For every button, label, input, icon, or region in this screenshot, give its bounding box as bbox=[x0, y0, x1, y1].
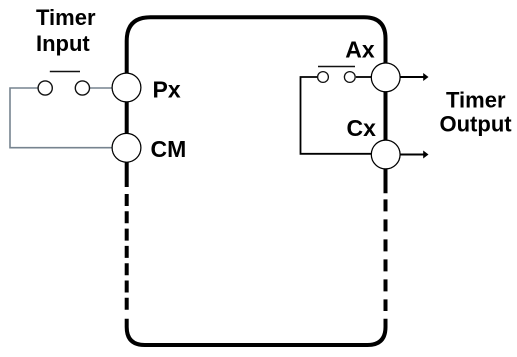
switch S1 blade bar bbox=[50, 71, 80, 73]
svg-text:Output: Output bbox=[440, 112, 513, 137]
timer unit bottom edge solid bbox=[127, 319, 386, 345]
wire: output switch to Ax bbox=[356, 76, 371, 78]
svg-text:CM: CM bbox=[151, 136, 187, 162]
terminal Cx bbox=[371, 140, 400, 169]
switch S2 contact circle right bbox=[344, 72, 355, 83]
switch S2 contact circle left bbox=[318, 72, 329, 83]
switch S1 contact circle left bbox=[38, 81, 52, 95]
timer unit right edge dashed bbox=[384, 199, 388, 311]
arrow: Cx output bbox=[401, 151, 429, 159]
timer unit outline (solid top and sides) bbox=[127, 17, 386, 193]
arrow: Ax output bbox=[401, 73, 429, 81]
svg-text:Ax: Ax bbox=[345, 37, 375, 63]
svg-text:Input: Input bbox=[36, 31, 90, 56]
svg-text:Timer: Timer bbox=[446, 87, 506, 112]
label Timer Output bbox=[440, 87, 513, 136]
terminal Px bbox=[112, 73, 141, 102]
switch S1 contact circle right bbox=[75, 81, 89, 95]
svg-text:Timer: Timer bbox=[36, 5, 96, 30]
wire: right loop from output switch to Cx bbox=[301, 77, 372, 154]
terminal CM bbox=[112, 133, 141, 162]
label Timer Input bbox=[36, 5, 96, 56]
svg-text:Cx: Cx bbox=[347, 115, 377, 141]
wire: left loop from input switch to CM bbox=[10, 88, 112, 148]
wire: input switch to Px bbox=[90, 87, 113, 89]
terminal Ax bbox=[371, 63, 400, 92]
svg-text:Px: Px bbox=[153, 76, 181, 102]
timer unit left edge dashed bbox=[125, 194, 129, 311]
switch S2 blade bar bbox=[318, 66, 355, 68]
